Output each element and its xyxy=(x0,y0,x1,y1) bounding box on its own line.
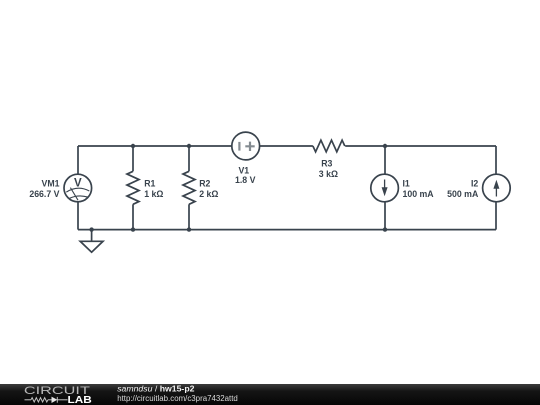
wire I2 branch upper xyxy=(495,146,497,174)
svg-text:100 mA: 100 mA xyxy=(403,189,435,199)
resistor R2 xyxy=(183,171,195,204)
svg-text:I1: I1 xyxy=(403,179,410,189)
wire I1 branch upper xyxy=(384,146,386,174)
svg-text:3 kΩ: 3 kΩ xyxy=(319,169,338,179)
svg-text:R3: R3 xyxy=(321,159,332,169)
resistor R3 xyxy=(313,140,345,152)
svg-text:2 kΩ: 2 kΩ xyxy=(199,189,218,199)
wire R2 branch upper xyxy=(188,146,190,171)
svg-text:http://circuitlab.com/c3pra743: http://circuitlab.com/c3pra7432attd xyxy=(117,394,238,403)
svg-text:LAB: LAB xyxy=(68,395,92,405)
junction bottom R2 xyxy=(187,227,191,231)
current source I2 xyxy=(483,174,511,202)
wire top: V1 right to R3 left xyxy=(260,145,313,147)
svg-text:R1: R1 xyxy=(144,179,155,189)
footer bar xyxy=(0,384,540,405)
svg-text:VM1: VM1 xyxy=(42,179,60,189)
voltage source V1 xyxy=(232,132,260,160)
wire top right: R3 right to I2 top corner xyxy=(345,145,496,147)
logo schematic line xyxy=(25,397,68,403)
junction top R2 xyxy=(187,144,191,148)
junction top R1 xyxy=(131,144,135,148)
resistor R1 xyxy=(127,171,139,204)
svg-text:1 kΩ: 1 kΩ xyxy=(144,189,163,199)
junction bottom R1 xyxy=(131,227,135,231)
wire VM1 branch upper xyxy=(77,146,79,174)
svg-text:samndsu / hw15-p2: samndsu / hw15-p2 xyxy=(117,384,194,394)
junction bottom I1 xyxy=(383,227,387,231)
wire top left: VM1 top to V1 left xyxy=(78,145,232,147)
wire bottom rail xyxy=(78,229,496,231)
junction top I1 xyxy=(383,144,387,148)
svg-text:500 mA: 500 mA xyxy=(447,189,479,199)
wire R1 branch lower xyxy=(132,204,134,229)
svg-text:R2: R2 xyxy=(199,179,210,189)
logo diode xyxy=(52,397,58,403)
wire R1 branch upper xyxy=(132,146,134,171)
svg-text:I2: I2 xyxy=(471,179,478,189)
svg-text:266.7 V: 266.7 V xyxy=(29,189,59,199)
junction bottom ground xyxy=(89,227,93,231)
current source I1 xyxy=(371,174,399,202)
wire I2 branch lower xyxy=(495,202,497,230)
wire I1 branch lower xyxy=(384,202,386,230)
svg-text:V1: V1 xyxy=(238,165,249,175)
voltmeter VM1 xyxy=(64,174,92,202)
svg-text:1.8 V: 1.8 V xyxy=(235,175,256,185)
wire R2 branch lower xyxy=(188,204,190,229)
wire VM1 branch lower xyxy=(77,202,79,230)
ground xyxy=(80,230,103,253)
